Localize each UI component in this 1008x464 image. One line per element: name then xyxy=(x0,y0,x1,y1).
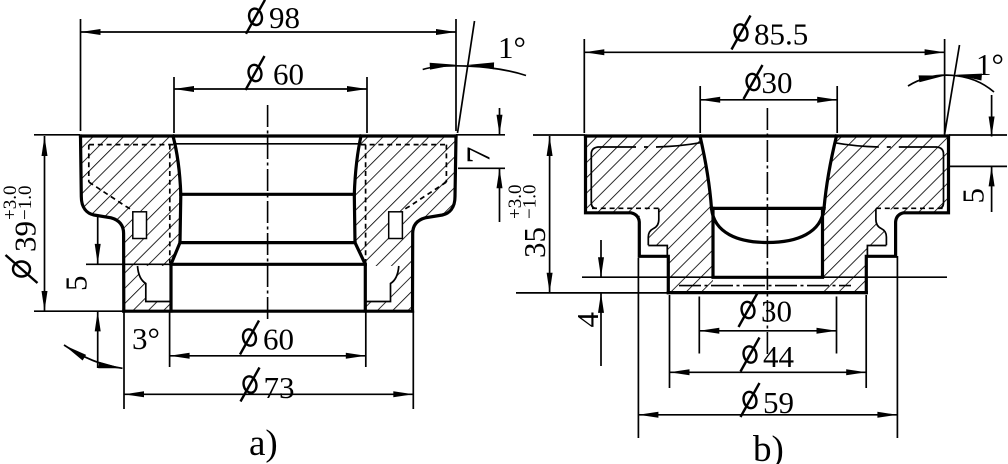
dimension 7 text xyxy=(461,147,498,164)
dimension phi30 bottom text xyxy=(740,300,756,319)
svg-text:5: 5 xyxy=(59,276,94,292)
dimension 7: extension lines xyxy=(456,134,505,136)
part b top face xyxy=(586,134,949,137)
part a machined top face dashes left xyxy=(89,144,173,146)
svg-text:59: 59 xyxy=(763,385,794,420)
part b machined profile right xyxy=(834,143,943,209)
part b machined profile left xyxy=(591,143,700,209)
dimension phi60 top text xyxy=(247,63,263,82)
part a bottom face xyxy=(124,310,413,313)
dimension phi44 text xyxy=(742,345,758,364)
part a machined notch lower-left (white) xyxy=(138,266,172,302)
dimension phi59 text xyxy=(742,390,758,409)
part a machined wall dashed right outer xyxy=(445,145,447,182)
part a centerline xyxy=(267,105,269,321)
dimension phi44 line xyxy=(670,371,867,373)
svg-text:b): b) xyxy=(753,429,784,464)
dimension phi30 top line xyxy=(700,99,837,101)
dimension phi98 line xyxy=(81,31,457,33)
part a outer profile left xyxy=(81,136,124,311)
svg-text:35: 35 xyxy=(517,227,552,258)
part b hole edge line xyxy=(712,207,825,210)
part a left section hatch xyxy=(81,136,181,311)
dimension phi73 line xyxy=(124,393,413,395)
part b hole flat bottom xyxy=(713,276,823,279)
part b right section hatch xyxy=(823,136,949,293)
dimension phi85.5 line xyxy=(584,51,944,53)
extension line for 3 degree / phi73 left xyxy=(123,311,125,409)
svg-text:7: 7 xyxy=(461,147,498,164)
part a machined top face line xyxy=(173,143,361,145)
part a machined groove notch upper-right (white) xyxy=(389,212,403,239)
svg-text:1°: 1° xyxy=(498,30,526,65)
part a right section hatch xyxy=(354,136,456,311)
dimension phi73 text xyxy=(242,375,258,394)
part a 1 degree angle arc xyxy=(423,66,526,76)
dimension phi30 top: extension lines xyxy=(699,86,701,133)
svg-text:a): a) xyxy=(249,423,278,464)
dimension phi30 bottom line xyxy=(699,330,836,332)
dimension phi59: extension lines xyxy=(637,258,639,438)
dimension phi60 top line xyxy=(174,88,367,90)
part a machined top face dashes right xyxy=(361,144,447,146)
part b machined step pocket right (white) xyxy=(868,210,896,256)
svg-text:60: 60 xyxy=(263,322,294,357)
svg-text:73: 73 xyxy=(264,370,295,405)
dimension phi39 with tolerance xyxy=(34,134,80,136)
part b bowl arc xyxy=(712,208,825,242)
part b hole right wall xyxy=(824,136,837,208)
part b left section hatch xyxy=(586,136,714,293)
dimension 5 part a xyxy=(97,216,99,264)
part b bore wall left xyxy=(711,208,714,276)
dimension phi73: right extension line xyxy=(412,311,414,409)
dimension phi85.5: extension lines xyxy=(583,39,585,133)
dimension 7 arrows xyxy=(499,108,501,135)
part a machined groove notch upper-left (white) xyxy=(133,212,147,239)
svg-text:−1.0: −1.0 xyxy=(520,185,541,219)
part b parting line xyxy=(582,276,947,278)
part a hole edge line middle xyxy=(180,241,355,244)
dimension 4 part b xyxy=(600,240,602,277)
3 degree angle arc xyxy=(64,345,123,368)
part a lower edge thin extension left xyxy=(86,263,171,265)
part b boss bottom thin extension left xyxy=(516,292,668,294)
dimension 35 with tolerance xyxy=(533,134,585,136)
part a machined diagonal dashed left xyxy=(89,182,133,212)
svg-text:44: 44 xyxy=(763,339,795,374)
svg-text:39: 39 xyxy=(8,221,43,252)
dimension phi85.5 text xyxy=(733,23,749,42)
dimension phi60 bottom line xyxy=(170,355,366,357)
part a machined diagonal dashed right xyxy=(402,182,446,212)
dimension phi60 bottom: extension lines xyxy=(169,311,171,367)
dimension phi44: extension lines xyxy=(669,295,671,388)
part b boss bottom face xyxy=(668,291,866,294)
part b bore wall right xyxy=(821,208,824,276)
part b left flange edge xyxy=(586,136,669,293)
dimension phi60 bottom text xyxy=(241,328,257,347)
dimension 5 part b xyxy=(949,134,1007,136)
part a machined wall dashed left outer xyxy=(88,145,90,182)
dimension phi60 top: extension lines xyxy=(173,77,175,133)
part a outline top face xyxy=(81,134,457,137)
part b centerline xyxy=(766,108,768,356)
svg-text:4: 4 xyxy=(570,312,605,328)
dimension phi98 text xyxy=(247,7,263,26)
dimension phi59 line xyxy=(638,414,897,416)
part a hole edge line lower thick xyxy=(171,263,365,266)
part b machined bottom dash-dot xyxy=(679,285,851,287)
svg-text:30: 30 xyxy=(762,65,793,100)
svg-text:85.5: 85.5 xyxy=(754,17,808,52)
part b hole left wall xyxy=(700,136,712,208)
part a outer profile right xyxy=(413,136,457,311)
svg-text:98: 98 xyxy=(269,0,300,35)
svg-text:3°: 3° xyxy=(132,321,160,356)
dimension phi98: extension lines xyxy=(80,19,82,131)
part b right flange edge xyxy=(866,136,948,293)
svg-text:1°: 1° xyxy=(976,47,1004,82)
svg-text:−1.0: −1.0 xyxy=(15,186,36,220)
part a machined notch lower-right (white) xyxy=(365,266,399,302)
part a hole right wall xyxy=(354,136,365,311)
part b machined step pocket left (white) xyxy=(640,210,668,256)
svg-text:5: 5 xyxy=(956,188,991,204)
part b 1 degree angle arc xyxy=(908,75,994,92)
part b draft slant line xyxy=(945,45,960,135)
part a hole left wall xyxy=(171,136,181,311)
svg-text:30: 30 xyxy=(761,294,792,329)
part a hole edge line upper xyxy=(181,193,354,196)
dimension phi30 bottom: extension lines xyxy=(698,297,700,354)
svg-text:60: 60 xyxy=(273,57,304,92)
part a machined bore dashed left xyxy=(169,145,171,263)
part a draft slant line xyxy=(458,21,475,133)
dimension phi30 top text xyxy=(745,72,761,91)
part a machined bore dashed right xyxy=(365,145,367,263)
